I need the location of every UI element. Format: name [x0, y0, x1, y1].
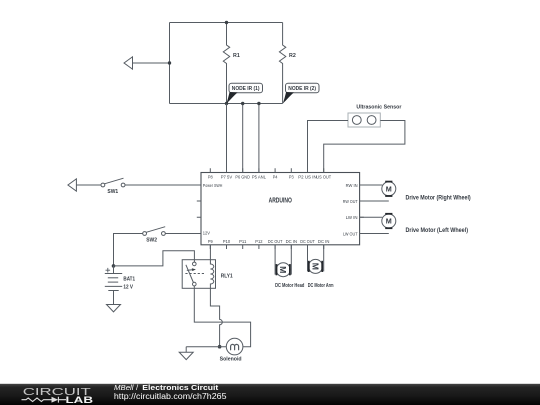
footer title text [114, 383, 227, 401]
node NODE IR (2) [283, 83, 319, 103]
svg-text:BAT1: BAT1 [123, 277, 135, 283]
wire (sensor net box: top edge) [170, 22, 283, 24]
svg-text:LW OUT: LW OUT [343, 231, 358, 236]
svg-text:RW IN: RW IN [346, 183, 358, 188]
svg-text:DC IN: DC IN [286, 239, 298, 244]
svg-text:M: M [386, 217, 392, 226]
motor M3 (Drive Motor Right Wheel) [382, 182, 396, 196]
svg-text:RW OUT: RW OUT [343, 199, 358, 204]
wire (sensor net box: bottom edge) [170, 103, 283, 105]
op-amp U2 ARDUINO box [201, 173, 360, 245]
svg-text:P10: P10 [223, 239, 231, 244]
svg-text:P11: P11 [239, 239, 247, 244]
svg-text:P3: P3 [289, 174, 294, 179]
svg-text:Solenoid: Solenoid [220, 357, 243, 363]
svg-text:P6 GND: P6 GND [235, 174, 250, 179]
svg-text:US OUT: US OUT [316, 174, 331, 179]
svg-text:DC Motor Arm: DC Motor Arm [308, 283, 334, 289]
wire [186, 346, 226, 348]
svg-text:M: M [278, 266, 288, 273]
wire (RW OUT) [360, 200, 389, 202]
junction [225, 102, 228, 105]
battery BAT1 [105, 266, 122, 305]
wire (relay switch to solenoid, with hop) [194, 286, 250, 347]
svg-text:P7 5V: P7 5V [221, 174, 233, 179]
footer bar [0, 384, 540, 405]
resistor R2 [279, 23, 285, 104]
svg-text:Electronics Circuit: Electronics Circuit [142, 383, 219, 392]
node NODE IR (1) [226, 83, 262, 103]
svg-text:LAB: LAB [66, 395, 94, 405]
wire (RW IN) [360, 184, 383, 186]
ground [179, 352, 193, 359]
wire (LW IN) [360, 216, 383, 218]
svg-text:P4: P4 [273, 174, 278, 179]
svg-text:SW2: SW2 [146, 237, 157, 243]
svg-text:MBell: MBell [114, 383, 134, 392]
switch SW2 [114, 227, 202, 266]
motor M2 (DC Motor Arm) [308, 245, 324, 274]
wire (P9 to relay coil) [209, 245, 211, 260]
pin ticks bottom [210, 245, 323, 249]
svg-text:DC Motor Head: DC Motor Head [275, 283, 305, 289]
svg-text:P5 ANL: P5 ANL [252, 174, 266, 179]
wire [185, 347, 187, 353]
switch SW1 [76, 178, 125, 187]
junction [168, 61, 171, 64]
wire (US OUT) [324, 121, 405, 173]
wire (LW OUT) [360, 233, 389, 235]
resistor R1 [223, 23, 229, 104]
svg-text:NODE IR (2): NODE IR (2) [288, 86, 316, 92]
svg-text:NODE IR (1): NODE IR (1) [232, 86, 260, 92]
junction [218, 345, 222, 349]
junction [241, 102, 244, 105]
svg-text:P8: P8 [208, 174, 213, 179]
CircuitLab logo [22, 387, 94, 405]
svg-text:P9: P9 [208, 239, 213, 244]
wire [125, 184, 201, 186]
wire [258, 104, 260, 173]
svg-text:M: M [310, 263, 320, 270]
svg-text:12 V: 12 V [123, 285, 133, 291]
wire [114, 251, 195, 266]
wire (relay coil to solenoid node) [210, 288, 222, 346]
svg-text:ARDUINO: ARDUINO [269, 198, 293, 205]
node flag B (SW1 input arrow) [68, 179, 77, 191]
svg-text:RLY1: RLY1 [221, 274, 233, 280]
svg-text:P12: P12 [255, 239, 263, 244]
junction [225, 21, 228, 24]
svg-text:R1: R1 [233, 53, 241, 59]
wire (sensor net box: left edge) [169, 23, 171, 104]
svg-text:SW1: SW1 [107, 189, 118, 195]
motor M4 (Drive Motor Left Wheel) [382, 214, 396, 228]
svg-text:DC IN: DC IN [318, 239, 330, 244]
svg-text:LW IN: LW IN [346, 215, 358, 220]
svg-text:DC OUT: DC OUT [300, 239, 315, 244]
svg-text:Drive Motor (Right Wheel): Drive Motor (Right Wheel) [406, 196, 471, 202]
node flag A (top-left input arrow) [124, 57, 133, 69]
ground [107, 305, 121, 312]
svg-text:P2 US IN: P2 US IN [298, 174, 317, 179]
wire [242, 104, 244, 173]
svg-text:R2: R2 [289, 53, 296, 59]
wire [133, 62, 170, 64]
svg-text:Ultrasonic Sensor: Ultrasonic Sensor [356, 105, 402, 111]
pin ticks left [197, 185, 201, 234]
wire (US IN) [308, 121, 349, 173]
junction [257, 102, 260, 105]
svg-text:Drive Motor (Left Wheel): Drive Motor (Left Wheel) [406, 228, 469, 234]
solenoid L1 [226, 338, 243, 355]
junction [112, 264, 116, 268]
ultrasonic sensor U1 [348, 113, 380, 127]
motor M1 (DC Motor Head) [275, 245, 291, 277]
svg-text:DC OUT: DC OUT [268, 239, 283, 244]
svg-text:http://circuitlab.com/ch7h265: http://circuitlab.com/ch7h265 [114, 392, 227, 401]
relay RLY1 [182, 260, 215, 289]
pin ticks top [210, 168, 323, 172]
wire [226, 104, 228, 173]
svg-text:Power SWH: Power SWH [203, 183, 223, 188]
svg-text:M: M [386, 184, 392, 193]
pin ticks right [360, 185, 364, 234]
svg-text:12V: 12V [203, 230, 211, 235]
